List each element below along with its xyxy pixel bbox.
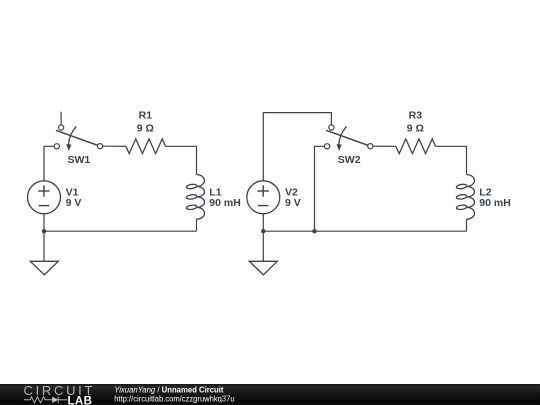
wire: L1 bottom to rail	[196, 219, 198, 231]
SW1 arrowhead	[66, 144, 71, 151]
wire: bottom rail of left circuit	[44, 230, 197, 232]
ground GND2	[249, 261, 277, 275]
svg-text:9 Ω: 9 Ω	[407, 123, 424, 135]
SW1 blade	[56, 130, 98, 145]
switch SW1	[54, 112, 102, 151]
svg-text:SW2: SW2	[338, 154, 361, 166]
wire: junction to ground GND1	[43, 231, 45, 261]
wire: V2 bottom	[262, 214, 264, 231]
SW2 left throw contact	[325, 144, 330, 149]
svg-text:R3: R3	[409, 110, 423, 122]
ground GND1	[30, 261, 58, 275]
svg-text:9 Ω: 9 Ω	[137, 123, 154, 135]
svg-text:9 V: 9 V	[66, 197, 82, 209]
wire: V1 bottom	[43, 214, 45, 231]
wire: R3 to L2 top	[436, 146, 467, 174]
V2 plus sign	[258, 190, 269, 192]
footer bar	[0, 384, 540, 405]
svg-text:http://circuitlab.com/czzgruwh: http://circuitlab.com/czzgruwhkq37u	[114, 394, 234, 404]
wire: L2 bottom to rail	[466, 219, 468, 231]
inductor L2	[456, 175, 474, 220]
wire: junction to ground GND2	[262, 231, 264, 261]
svg-text:LAB: LAB	[68, 395, 93, 405]
wire: SW1 common to R1	[103, 145, 126, 147]
svg-text:9 V: 9 V	[285, 197, 301, 209]
switch SW2	[325, 125, 373, 151]
resistor R3	[396, 139, 436, 154]
svg-text:R1: R1	[139, 110, 153, 122]
svg-text:90 mH: 90 mH	[209, 197, 241, 209]
node: junction SW2 branch with rail	[312, 229, 316, 233]
node: junction of V1, rail and ground	[42, 229, 46, 233]
resistor R1	[126, 139, 166, 154]
wire: R1 to L1 top	[166, 146, 197, 174]
SW1 top terminal contact	[59, 125, 64, 130]
voltage source V1	[28, 181, 61, 214]
V2 minus sign	[258, 205, 268, 207]
SW2 common contact	[368, 144, 373, 149]
SW2 arrowhead	[337, 144, 342, 151]
SW1 actuation arc	[68, 126, 76, 144]
V1 plus sign	[38, 190, 49, 192]
svg-text:90 mH: 90 mH	[479, 197, 511, 209]
SW2 actuation arc	[339, 126, 347, 144]
node: junction of V2, rail and ground	[261, 229, 265, 233]
wire: V2 top rail over to SW2 top terminal	[263, 113, 331, 181]
SW1 common contact	[97, 144, 102, 149]
SW1 left throw contact	[54, 144, 59, 149]
wire: V1 top up and over to SW1 left throw	[44, 146, 54, 181]
wire: bottom rail of right circuit	[263, 230, 466, 232]
SW2 top terminal contact	[329, 125, 334, 130]
svg-text:SW1: SW1	[68, 154, 91, 166]
SW2 blade	[326, 130, 368, 145]
CircuitLab logo schematic squiggle	[24, 397, 68, 403]
voltage source V2	[247, 181, 280, 214]
inductor L1	[186, 175, 204, 220]
V1 minus sign	[39, 205, 49, 207]
SW1 top terminal stub	[60, 112, 62, 125]
wire: SW2 left throw down to bottom rail	[315, 146, 325, 231]
wire: SW2 common to R3	[373, 145, 396, 147]
